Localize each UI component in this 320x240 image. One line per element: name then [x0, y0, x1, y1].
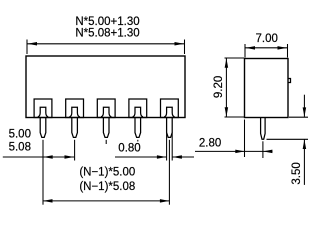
9.20 arrow top: [225, 58, 229, 68]
svg-text:N*5.00+1.30: N*5.00+1.30: [75, 16, 139, 28]
7.00 extension line left: [244, 44, 246, 58]
svg-text:3.50: 3.50: [291, 162, 303, 184]
5.00/5.08 arrow right: [65, 155, 75, 159]
svg-text:5.00: 5.00: [9, 129, 31, 141]
svg-text:0.80: 0.80: [118, 142, 140, 154]
pin 4 centerline: [137, 140, 139, 142]
side view body: [245, 59, 289, 118]
socket 4: [129, 99, 147, 118]
top dimension extension line left: [26, 40, 28, 55]
pin 4 below body: [135, 118, 141, 138]
svg-text:5.08: 5.08: [9, 142, 31, 154]
2.80 extension line (body left edge extended): [244, 120, 246, 158]
socket 2: [66, 99, 84, 118]
pin 1 below body: [40, 118, 46, 138]
3.50 dimension line upper segment with down arrow: [303, 95, 305, 117]
side view pin: [261, 118, 266, 140]
socket 1 pin: [38, 107, 48, 117]
7.00 dimension line: [246, 47, 288, 49]
pin 3 below body: [103, 118, 109, 138]
svg-text:(N−1)*5.08: (N−1)*5.08: [79, 181, 135, 193]
7.00 extension line right: [287, 44, 289, 58]
2.80 dimension leader line with right-pointing arrow: [195, 150, 273, 152]
svg-text:7.00: 7.00: [256, 33, 278, 45]
socket 2 pin: [69, 107, 79, 117]
socket 1: [34, 99, 52, 118]
front view body: [26, 56, 185, 118]
pin 5 centerline: [168, 140, 170, 205]
side view pin centerline: [262, 141, 264, 158]
socket 4 pin: [133, 107, 143, 117]
svg-text:N*5.08+1.30: N*5.08+1.30: [75, 28, 139, 40]
2.80 dimension right tail with left-pointing arrow: [263, 150, 273, 154]
socket 5 pin: [164, 107, 174, 117]
top dimension extension line right: [184, 40, 186, 55]
top dimension arrow right: [175, 42, 185, 46]
bottom dimension arrow right: [160, 199, 170, 203]
0.80 extension line right (pin5 right edge): [171, 133, 173, 161]
9.20 extension line top: [225, 57, 245, 59]
top dimension line: [28, 43, 185, 45]
7.00 arrow right: [278, 46, 288, 50]
bottom dimension arrow left: [43, 199, 53, 203]
9.20 arrow bottom: [225, 107, 229, 117]
socket 5: [161, 99, 179, 118]
svg-text:(N−1)*5.00: (N−1)*5.00: [79, 167, 135, 179]
3.50 extension line top (body bottom): [289, 116, 308, 118]
top dimension arrow left: [28, 42, 38, 46]
pin 2 below body: [72, 118, 78, 138]
0.80 dimension line right with arrow: [172, 156, 194, 158]
5.00/5.08 arrow left: [43, 155, 53, 159]
9.20 extension line bottom: [225, 116, 245, 118]
svg-text:9.20: 9.20: [213, 76, 225, 98]
socket 3 pin: [101, 107, 111, 117]
7.00 arrow left: [246, 46, 256, 50]
pin 1 centerline: [42, 140, 44, 205]
5.00/5.08 dimension line: [3, 156, 74, 158]
pin 5 below body: [167, 118, 173, 138]
pin 3 centerline: [105, 140, 107, 144]
side view latch bump: [288, 79, 291, 83]
0.80 dimension line left with arrow: [115, 156, 166, 158]
3.50 extension line bottom (pin tip): [267, 138, 309, 140]
9.20 dimension line: [225, 58, 227, 116]
svg-text:2.80: 2.80: [199, 137, 221, 149]
socket 3: [97, 99, 115, 118]
pin 2 centerline: [74, 140, 76, 161]
bottom dimension line: [43, 200, 169, 202]
3.50 dimension line lower segment with up arrow: [303, 140, 305, 185]
0.80 extension line left (pin5 left edge): [166, 133, 168, 161]
